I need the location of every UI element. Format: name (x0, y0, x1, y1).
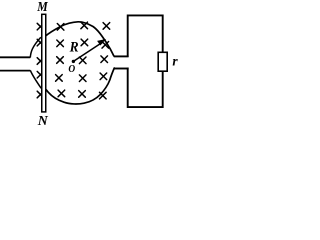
wire: right exit top segment (114, 55, 129, 57)
svg-text:N: N (37, 114, 49, 126)
flux cross row3 col3 (79, 57, 86, 64)
wire: curved lead from upper wire end to rod near M (30, 37, 41, 57)
radius arrow R shaft (73, 42, 102, 61)
flux cross row4 col2 (56, 75, 63, 82)
field region boundary, upper arc (magnetic field region B into page) (45, 22, 114, 56)
node O (center dot) (72, 60, 75, 63)
svg-text:r: r (172, 53, 178, 68)
wire: external loop upper run to resistor (128, 15, 163, 57)
flux cross row5 col2 (58, 90, 65, 97)
flux cross row1 col3 (81, 22, 88, 29)
flux cross row2 col4 (102, 42, 109, 49)
flux cross row2 col2 (57, 40, 64, 47)
svg-text:M: M (36, 0, 48, 15)
flux cross row1 col2 (57, 24, 64, 31)
flux cross on rod row3 (37, 58, 44, 65)
svg-text:R: R (69, 39, 79, 55)
field region boundary, lower arc (45, 68, 114, 104)
flux cross row1 col4 (103, 23, 110, 30)
wire: left lower lead from left edge (0, 70, 30, 72)
flux cross row2 col3 (81, 39, 88, 46)
flux cross row5 col4 (100, 92, 107, 99)
flux cross row3 col2 (57, 57, 64, 64)
flux cross on rod row1 (37, 23, 44, 30)
flux cross on rod row2 (37, 39, 44, 46)
flux cross row3 col4 (101, 56, 108, 63)
flux cross on rod row5 (37, 91, 44, 98)
flux cross on rod row4 (37, 71, 44, 78)
radius arrow R head (98, 39, 106, 45)
wire: external loop lower run to resistor (128, 68, 163, 108)
wire: right exit bottom segment (114, 68, 128, 70)
flux cross row4 col4 (100, 73, 107, 80)
svg-text:O: O (68, 63, 75, 75)
wire: curved lead from lower wire end to rod near N (30, 70, 41, 88)
wire: left upper lead from left edge (0, 56, 30, 58)
flux cross row4 col3 (79, 75, 86, 82)
flux cross row5 col3 (79, 91, 86, 98)
resistor r (box symbol) (158, 52, 167, 71)
rod MN (double-line conductor) (42, 14, 46, 112)
